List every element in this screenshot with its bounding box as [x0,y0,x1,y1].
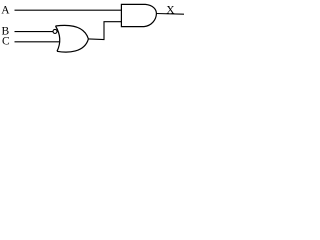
wire AND output to X [156,13,184,16]
inverter bubble on OR gate B input [53,29,57,33]
svg-text:X: X [166,4,175,16]
wire B to inverter bubble [15,31,54,33]
or-gate [56,25,89,52]
wire OR output to AND gate lower input [88,22,121,40]
and-gate [121,4,156,26]
svg-text:C: C [2,35,10,47]
wire C to OR gate input [15,41,61,43]
wire A to AND gate top input [15,9,122,11]
svg-text:A: A [1,5,10,17]
